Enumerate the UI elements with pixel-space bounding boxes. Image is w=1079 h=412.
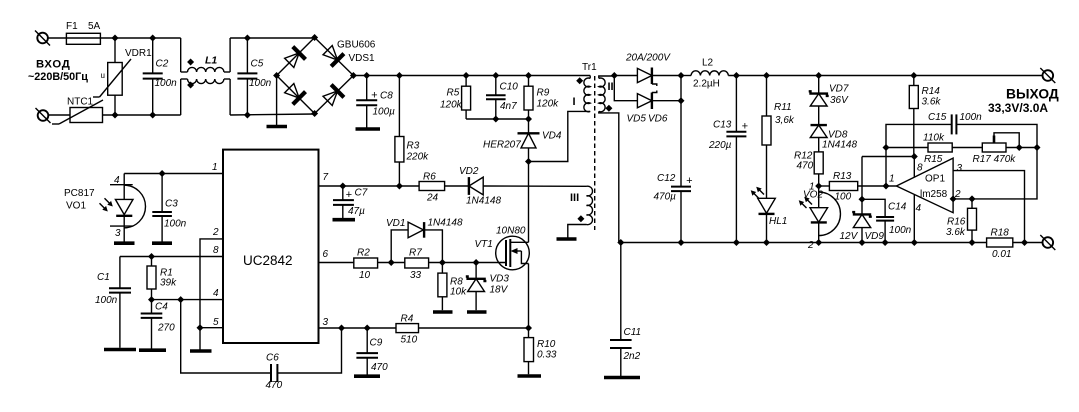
capacitor C7: [333, 186, 368, 218]
svg-text:ВХОД: ВХОД: [36, 59, 70, 71]
wire VD9 column: [861, 157, 863, 215]
wire VD6 junction down to C12: [680, 101, 682, 187]
svg-text:VD6: VD6: [648, 114, 668, 125]
node VO2 pin2: [815, 239, 822, 246]
ground C9: [354, 374, 380, 378]
svg-text:7: 7: [323, 172, 329, 183]
svg-text:HL1: HL1: [769, 216, 787, 227]
svg-text:C10: C10: [500, 82, 519, 93]
svg-text:20A/200V: 20A/200V: [625, 53, 671, 64]
wire R15 R17 row: [886, 147, 928, 149]
svg-text:C2: C2: [156, 59, 169, 70]
node bridge bottom: [311, 110, 318, 117]
svg-text:PC817: PC817: [64, 188, 95, 199]
resistor R16: [946, 199, 977, 243]
node C2 top: [149, 35, 156, 42]
wire pin2 column: [953, 148, 1037, 199]
wire drain column: [528, 162, 530, 243]
resistor R14: [909, 76, 941, 157]
svg-text:100n: 100n: [960, 112, 983, 123]
wire pin8 OP1: [913, 157, 915, 178]
svg-text:C9: C9: [370, 338, 383, 349]
svg-text:100n: 100n: [249, 78, 272, 89]
wire VD6 up to rail: [680, 76, 682, 101]
ground VO1: [114, 241, 135, 245]
wire: [103, 114, 181, 116]
svg-text:R2: R2: [357, 248, 370, 259]
svg-text:4: 4: [114, 175, 120, 186]
svg-text:10k: 10k: [450, 287, 467, 298]
svg-text:F1: F1: [66, 21, 78, 32]
node C6 right / pin3: [338, 325, 345, 332]
node C14 bottom: [882, 239, 889, 246]
svg-text:24: 24: [426, 193, 439, 204]
svg-text:1: 1: [212, 162, 218, 173]
svg-text:u: u: [101, 71, 105, 80]
resistor R15: [923, 133, 982, 166]
svg-text:+: +: [742, 121, 749, 133]
resistor R12: [794, 151, 823, 187]
diode VD8: [810, 125, 857, 152]
node C8: [363, 72, 370, 79]
resistor R18: [987, 228, 1043, 261]
inductor L2: [691, 58, 728, 90]
bridge diode top-right: [321, 44, 344, 67]
svg-text:3.6k: 3.6k: [922, 97, 942, 108]
svg-text:0.33: 0.33: [537, 350, 557, 361]
pin 1 wire: [124, 162, 223, 174]
ground R8: [433, 310, 453, 314]
svg-text:C8: C8: [380, 91, 393, 102]
resistor R10: [524, 338, 557, 375]
svg-text:GBU606: GBU606: [337, 40, 376, 51]
svg-text:OP1: OP1: [925, 174, 945, 185]
svg-text:R15: R15: [924, 154, 943, 165]
svg-text:3,6k: 3,6k: [775, 115, 795, 126]
svg-text:+: +: [346, 189, 353, 201]
svg-text:R3: R3: [407, 141, 420, 152]
resistor R6: [399, 172, 469, 204]
input terminal top: [35, 31, 50, 46]
node VDR1 bottom: [112, 112, 119, 119]
svg-text:C13: C13: [713, 120, 732, 131]
transformer winding II: [599, 76, 619, 243]
ground winding III: [557, 237, 577, 241]
transformer core: [594, 76, 596, 230]
svg-text:470: 470: [371, 362, 388, 373]
svg-text:8: 8: [213, 245, 219, 256]
output terminal plus: [1040, 68, 1055, 83]
svg-text:12V: 12V: [840, 231, 859, 242]
svg-text:II: II: [608, 81, 614, 93]
ground R10: [518, 374, 542, 378]
node C5 top: [244, 35, 251, 42]
svg-text:36V: 36V: [830, 95, 849, 106]
wire top rail to L1: [153, 37, 181, 39]
pin 7 wire: [319, 172, 400, 186]
wire snubber bottom: [466, 118, 528, 120]
svg-text:C1: C1: [97, 272, 110, 283]
node R14 bottom pin8: [911, 153, 918, 160]
svg-text:VT1: VT1: [475, 239, 493, 250]
svg-text:L2: L2: [702, 58, 714, 69]
svg-text:C12: C12: [657, 173, 676, 184]
svg-text:100µ: 100µ: [373, 107, 396, 118]
svg-text:UC2842: UC2842: [243, 253, 293, 268]
node bridge left: [273, 72, 280, 79]
wire secondary bottom rail: [619, 242, 987, 244]
node VDR1 top: [112, 35, 119, 42]
node pin5 gnd: [197, 324, 204, 331]
ground C3: [152, 241, 172, 245]
svg-text:100n: 100n: [155, 78, 178, 89]
svg-text:10: 10: [359, 270, 371, 281]
ground C7: [333, 218, 356, 222]
svg-text:VDR1: VDR1: [125, 48, 152, 59]
wire top rail L1 to bridge: [230, 37, 315, 39]
node C2 bottom: [149, 112, 156, 119]
bridge diode bottom-left: [283, 82, 306, 105]
capacitor C11: [610, 243, 641, 377]
svg-text:VD4: VD4: [542, 131, 562, 142]
svg-text:47µ: 47µ: [348, 206, 365, 217]
svg-text:120k: 120k: [440, 100, 463, 111]
node R7 right: [439, 259, 446, 266]
wire DC+ rail: [353, 75, 590, 77]
svg-text:18V: 18V: [490, 285, 509, 296]
svg-text:VD5: VD5: [627, 114, 647, 125]
node pin4 gnd: [911, 239, 918, 246]
svg-text:470: 470: [266, 380, 283, 391]
node VD9 bottom: [859, 239, 866, 246]
svg-text:NTC1: NTC1: [67, 97, 94, 108]
wire secondary rail left: [614, 75, 637, 77]
svg-text:100n: 100n: [164, 219, 187, 230]
pin 8 wire: [120, 245, 223, 257]
svg-text:VD7: VD7: [829, 84, 849, 95]
wire bottom rail to bridge: [230, 114, 315, 115]
node bridge top: [311, 34, 318, 41]
node C10 top: [492, 72, 499, 79]
node HL1 bottom: [763, 239, 770, 246]
svg-text:I: I: [573, 96, 576, 108]
svg-text:R6: R6: [423, 172, 436, 183]
zener VD7: [809, 76, 849, 126]
input terminal bottom: [36, 108, 51, 123]
svg-text:4: 4: [916, 203, 922, 214]
resistor R3: [395, 76, 429, 187]
transformer winding III: [568, 186, 593, 237]
node R3 top: [396, 72, 403, 79]
svg-text:C4: C4: [155, 302, 168, 313]
svg-text:110k: 110k: [923, 133, 945, 144]
wire: [100, 37, 152, 39]
wire rail to L2: [681, 75, 691, 77]
diode VD6: [637, 91, 681, 125]
bridge rectifier VDS1 GBU606: [277, 38, 376, 114]
svg-text:R9: R9: [537, 88, 550, 99]
resistor R4: [396, 314, 529, 346]
optocoupler VO1 PC817: [64, 174, 146, 242]
resistor R7: [405, 248, 506, 282]
resistor R5: [440, 76, 471, 120]
capacitor C14: [862, 199, 912, 242]
pin 6 wire: [319, 249, 354, 263]
svg-text:R11: R11: [774, 102, 792, 113]
diode VD2: [459, 166, 587, 207]
pin 3 wire: [319, 317, 397, 328]
ground bridge: [267, 125, 288, 129]
node R14 top: [910, 72, 917, 79]
node R9 bottom: [525, 116, 532, 123]
potentiometer R17: [973, 133, 1038, 165]
ground pin5: [190, 349, 212, 353]
svg-text:100: 100: [835, 192, 852, 203]
svg-text:C15: C15: [928, 112, 947, 123]
svg-text:1N4148: 1N4148: [822, 140, 857, 151]
zener VD3: [466, 263, 510, 311]
capacitor C6: [181, 300, 342, 391]
wire pin4 OP1: [913, 195, 915, 243]
svg-text:2.2µH: 2.2µH: [693, 79, 720, 90]
wire source column: [528, 264, 530, 338]
svg-text:VD9: VD9: [865, 231, 885, 242]
svg-text:270: 270: [157, 323, 175, 334]
svg-text:33: 33: [410, 270, 422, 281]
wire pin8 corner to C1: [119, 257, 121, 289]
node VD6 cathode: [678, 97, 685, 104]
node R3 bottom VCC: [396, 183, 403, 190]
svg-text:C3: C3: [165, 199, 178, 210]
svg-text:VO2: VO2: [803, 190, 823, 201]
node C9 top: [364, 325, 371, 332]
svg-text:ВЫХОД: ВЫХОД: [1006, 87, 1059, 102]
svg-text:510: 510: [401, 335, 418, 346]
resistor R1: [147, 257, 177, 300]
op-amp OP1 lm258: [889, 158, 963, 214]
node VD7 top: [815, 72, 822, 79]
svg-text:L1: L1: [205, 55, 217, 67]
svg-text:8: 8: [917, 163, 923, 174]
svg-text:C5: C5: [251, 59, 264, 70]
diode VD4 HER207: [483, 131, 562, 162]
capacitor C15: [886, 112, 1037, 148]
capacitor C4: [141, 300, 175, 349]
thermistor NTC1: [52, 97, 103, 125]
node R15 left: [883, 144, 890, 151]
svg-text:VD3: VD3: [490, 274, 510, 285]
svg-text:0.01: 0.01: [992, 249, 1011, 260]
ground C1: [104, 348, 136, 352]
svg-text:6: 6: [323, 249, 329, 260]
wire top rail input: [48, 37, 66, 39]
svg-text:4n7: 4n7: [500, 101, 517, 112]
capacitor C9: [356, 328, 388, 375]
svg-text:R18: R18: [991, 228, 1010, 239]
node bridge right: [350, 72, 357, 79]
svg-text:R4: R4: [401, 314, 414, 325]
wire bottom rail input: [49, 114, 71, 116]
node pin2: [950, 195, 957, 202]
node source / R10: [525, 325, 532, 332]
node C6 branch: [177, 296, 184, 303]
svg-text:39k: 39k: [160, 278, 177, 289]
node R1 top: [148, 253, 155, 260]
ground C8: [356, 127, 381, 131]
svg-text:C11: C11: [624, 327, 642, 338]
choke L1: [181, 38, 230, 115]
capacitor C12: [654, 173, 694, 243]
svg-text:100n: 100n: [889, 225, 912, 236]
node C12 bottom: [678, 239, 685, 246]
capacitor C1: [95, 272, 131, 348]
svg-text:VDS1: VDS1: [349, 53, 376, 64]
svg-text:R10: R10: [537, 339, 556, 350]
svg-text:470: 470: [797, 161, 814, 172]
svg-text:10N80: 10N80: [496, 226, 526, 237]
node VD1 left: [388, 259, 395, 266]
svg-text:C7: C7: [355, 188, 368, 199]
pin 5 wire: [200, 317, 223, 328]
svg-text:470µ: 470µ: [654, 192, 677, 203]
resistor R13: [819, 171, 897, 203]
svg-text:VO1: VO1: [66, 201, 86, 212]
wire drain node to primary bottom: [529, 111, 591, 161]
node R5 top: [463, 72, 470, 79]
node C5 bottom: [244, 112, 251, 119]
svg-text:HER207: HER207: [483, 140, 521, 151]
svg-text:100n: 100n: [95, 295, 118, 306]
node R1 bottom: [148, 296, 155, 303]
wire secondary top rail: [728, 75, 1042, 77]
capacitor C10: [486, 76, 518, 120]
svg-text:5A: 5A: [88, 21, 101, 32]
node R16 bottom: [969, 239, 976, 246]
pin 4 wire: [152, 288, 224, 300]
wire bridge left to ground: [276, 76, 278, 126]
node VD5 cathode: [678, 72, 685, 79]
bridge diode bottom-right: [321, 85, 344, 108]
svg-text:3: 3: [115, 228, 121, 239]
ground VD3: [467, 310, 487, 314]
capacitor C2: [143, 38, 177, 115]
svg-text:+: +: [686, 175, 693, 187]
IC U1 UC2842: [223, 150, 319, 343]
svg-text:1: 1: [889, 174, 895, 185]
node C7: [339, 183, 346, 190]
svg-text:VD1: VD1: [386, 218, 405, 229]
svg-text:4: 4: [213, 288, 219, 299]
node VD5 anode: [611, 72, 618, 79]
node C10 bottom: [492, 116, 499, 123]
diode VD1: [386, 218, 463, 263]
pin 2 wire: [200, 227, 223, 328]
node VD4 anode / drain: [525, 158, 532, 165]
svg-text:3: 3: [957, 163, 963, 174]
svg-text:220µ: 220µ: [708, 140, 732, 151]
node R9 top: [525, 72, 532, 79]
svg-text:C14: C14: [888, 202, 907, 213]
svg-text:220k: 220k: [406, 152, 430, 163]
varistor VDR1: [93, 38, 152, 115]
node VD3 top: [473, 259, 480, 266]
svg-text:III: III: [570, 192, 579, 204]
svg-text:R5: R5: [447, 88, 460, 99]
svg-text:~220В/50Гц: ~220В/50Гц: [28, 71, 88, 83]
svg-text:1N4148: 1N4148: [428, 218, 463, 229]
wire pin3: [953, 171, 1024, 243]
wire pin5 to ground: [199, 328, 201, 350]
wire R15 left vertical to pin1: [885, 148, 887, 187]
node C13 top: [733, 72, 740, 79]
resistor R11: [762, 76, 795, 199]
svg-text:Tr1: Tr1: [582, 62, 597, 73]
svg-text:lm258: lm258: [920, 189, 948, 200]
svg-text:5: 5: [213, 317, 219, 328]
svg-text:R17 470k: R17 470k: [973, 154, 1017, 165]
node pin3 bottom: [1021, 239, 1028, 246]
ground C4: [139, 348, 166, 352]
node OP1 pin1: [883, 183, 890, 190]
transformer winding I: [573, 76, 591, 112]
node C11 top: [617, 239, 624, 246]
svg-text:33,3V/3.0A: 33,3V/3.0A: [988, 101, 1048, 115]
svg-text:R7: R7: [409, 248, 422, 259]
fuse F1: [66, 21, 101, 44]
node C15 right: [1034, 144, 1041, 151]
node C3 top: [159, 170, 166, 177]
LED HL1: [751, 187, 788, 243]
ground C11: [604, 376, 640, 380]
capacitor C13: [708, 76, 749, 243]
node VO2 pin1: [815, 183, 822, 190]
svg-text:3.6k: 3.6k: [946, 227, 966, 238]
svg-text:1N4148: 1N4148: [466, 196, 501, 207]
wire R14 node row: [862, 156, 914, 158]
svg-text:R16: R16: [947, 217, 966, 228]
svg-text:VD2: VD2: [459, 166, 479, 177]
svg-text:C6: C6: [266, 353, 279, 364]
optocoupler VO2: [799, 186, 841, 251]
svg-text:+: +: [371, 90, 378, 102]
node R11 top: [763, 72, 770, 79]
diode VD5: [627, 68, 680, 125]
node R16 top: [969, 195, 976, 202]
capacitor C5: [237, 38, 271, 115]
svg-text:120k: 120k: [537, 99, 560, 110]
node R17 wiper: [1016, 144, 1023, 151]
svg-text:3: 3: [323, 317, 329, 328]
svg-text:R13: R13: [833, 171, 852, 182]
bridge diode top-left: [283, 47, 306, 70]
resistor R9: [524, 76, 559, 134]
svg-text:2: 2: [212, 227, 219, 238]
svg-text:2: 2: [807, 240, 814, 251]
node VD9 C14 branch: [859, 196, 866, 203]
svg-text:R14: R14: [922, 86, 941, 97]
node C13 bottom: [733, 239, 740, 246]
transistor VT1 10N80: [475, 226, 530, 270]
resistor R2: [354, 248, 405, 282]
output terminal minus: [1040, 235, 1055, 250]
svg-text:2n2: 2n2: [623, 351, 641, 362]
wire to VD6: [614, 76, 637, 101]
capacitor C8: [356, 76, 395, 128]
resistor R8: [438, 263, 467, 311]
zener VD9: [840, 212, 885, 242]
capacitor C3: [152, 174, 186, 242]
